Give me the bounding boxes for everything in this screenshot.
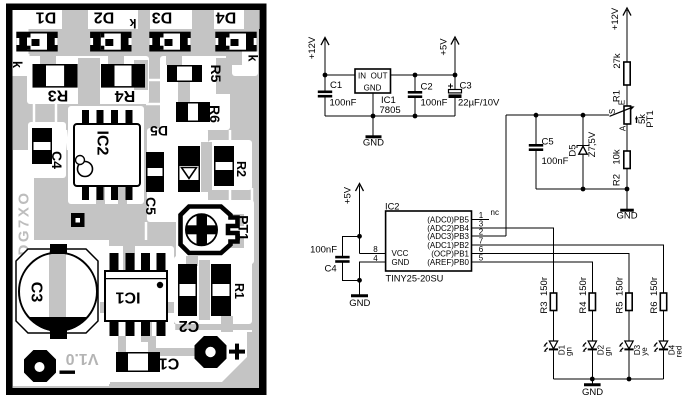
resistor R2: [624, 151, 630, 169]
capacitor C1: [318, 75, 332, 116]
capacitor C5 footprint: [146, 152, 164, 192]
IC2 pin1 marker circles: [76, 156, 93, 177]
svg-text:VCC: VCC: [392, 249, 409, 258]
PCB gray channels: [199, 260, 210, 320]
svg-text:C5: C5: [542, 137, 554, 148]
svg-text:OUT: OUT: [371, 72, 388, 81]
supply +5V (IC2): [343, 184, 364, 254]
wire R4 to D2: [591, 311, 593, 342]
plus mark: [229, 344, 245, 360]
svg-text:+5V: +5V: [439, 38, 450, 56]
IC1 pins: [110, 253, 166, 336]
svg-text:E: E: [618, 100, 627, 105]
IC IC1 body: [105, 271, 167, 321]
wire R1 to PT1: [626, 85, 628, 106]
svg-text:GND: GND: [349, 298, 370, 309]
resistor R1: [624, 62, 630, 85]
wire divider bottom rail: [536, 188, 627, 190]
resistor R6 footprint: [176, 102, 210, 122]
C3 pads: [50, 244, 67, 339]
svg-text:k: k: [129, 16, 136, 30]
zener diode D5: [577, 115, 589, 189]
node C4 bottom: [357, 278, 362, 283]
svg-text:+12V: +12V: [610, 7, 621, 30]
svg-text:(OCP)PB1: (OCP)PB1: [431, 249, 469, 258]
svg-text:R5: R5: [615, 301, 626, 313]
svg-text:150r: 150r: [615, 277, 626, 296]
svg-text:100nF: 100nF: [310, 245, 337, 256]
svg-text:100nF: 100nF: [421, 98, 448, 109]
potentiometer PT1: [610, 106, 639, 124]
wire wiper to pin2: [505, 115, 507, 236]
regulator IC1 box: [355, 69, 391, 93]
wire pin3 to R3 column: [472, 228, 554, 293]
svg-text:C2: C2: [421, 82, 433, 93]
svg-text:150r: 150r: [578, 277, 589, 296]
svg-text:IN: IN: [358, 72, 366, 81]
wire IC1 OUT to +5V rail: [391, 74, 456, 76]
wire pin1 stub (nc): [472, 218, 490, 220]
svg-text:Z7,5V: Z7,5V: [587, 131, 598, 157]
svg-text:k: k: [10, 61, 24, 68]
LED D1: [543, 341, 558, 352]
svg-text:D5: D5: [568, 144, 579, 156]
wire +12V rail to IC1 IN: [325, 74, 355, 76]
svg-text:nc: nc: [491, 208, 499, 217]
svg-text:22µF/10V: 22µF/10V: [458, 98, 500, 109]
resistor R3: [550, 293, 556, 311]
IC U: IC2 body: [74, 124, 140, 186]
resistor R2 footprint: [214, 146, 234, 186]
node rail D2: [590, 377, 595, 382]
wire D1 cathode: [553, 350, 555, 380]
minus mark: [60, 371, 76, 374]
svg-text:7805: 7805: [380, 105, 401, 116]
wire pin5 to R4 column: [472, 262, 593, 293]
wire GND pin4: [360, 262, 386, 294]
node C2 top: [413, 73, 418, 78]
svg-text:IC1: IC1: [115, 289, 140, 306]
LED footprint D1: [16, 32, 57, 52]
node C5 top: [534, 113, 539, 118]
capacitor C3 body circle: [19, 253, 97, 331]
svg-text:R6: R6: [649, 301, 660, 313]
svg-text:C2: C2: [179, 317, 200, 334]
wire pin2 to wiper net: [472, 235, 507, 237]
resistor R5: [626, 293, 632, 311]
svg-text:R3: R3: [48, 87, 69, 104]
node C4 top: [357, 234, 362, 239]
svg-text:R4: R4: [115, 87, 136, 104]
LED D4: [653, 341, 668, 352]
svg-text:R2: R2: [234, 161, 248, 177]
svg-text:IC2: IC2: [94, 131, 111, 156]
wire pin6 to R5 column: [472, 253, 630, 293]
LED footprint D4: [215, 32, 256, 52]
LED footprint D2: [90, 32, 131, 52]
svg-text:8: 8: [373, 245, 378, 254]
svg-text:GND: GND: [364, 84, 382, 93]
wire PT1 to R2: [626, 124, 628, 151]
mounting pad (minus): [24, 350, 56, 382]
ground (LEDs): [582, 379, 603, 398]
PCB board outline frame: [6, 4, 267, 396]
PCB copper traces: [62, 10, 88, 29]
PCB white isolation regions: [13, 10, 260, 29]
diode D5 footprint: [178, 146, 200, 192]
wire R2 bottom: [626, 169, 628, 210]
capacitor C3 outline octagon: [16, 249, 98, 333]
wire IC1 GND pin: [372, 93, 374, 136]
ground (divider): [616, 210, 637, 221]
svg-text:gn: gn: [603, 347, 612, 356]
PCB isolation channels: [33, 104, 36, 122]
via pad: [71, 213, 85, 227]
svg-text:GND: GND: [392, 258, 410, 267]
svg-text:PT1: PT1: [236, 215, 252, 241]
node +12V junction: [323, 73, 328, 78]
svg-text:C3: C3: [460, 81, 472, 92]
supply +12V (divider): [610, 7, 631, 62]
resistor R5 footprint: [167, 65, 202, 82]
node C2 bottom: [413, 114, 418, 119]
svg-text:D4: D4: [216, 9, 237, 26]
svg-text:100nF: 100nF: [330, 98, 357, 109]
capacitor C2: [408, 75, 422, 116]
svg-text:IC2: IC2: [385, 202, 399, 212]
capacitor C3 (polarized): [448, 75, 462, 116]
node rail D3: [627, 377, 632, 382]
svg-text:R3: R3: [539, 301, 550, 313]
node C3 top: [453, 73, 458, 78]
C3 polarity fill: [28, 317, 89, 332]
wire D4 cathode: [663, 350, 665, 380]
MCU IC2 box: [386, 211, 472, 271]
mounting pad (plus): [195, 336, 227, 368]
svg-text:+12V: +12V: [307, 36, 318, 59]
svg-text:DG7XO: DG7XO: [16, 190, 33, 255]
resistor R3 footprint: [33, 64, 78, 88]
svg-text:100nF: 100nF: [542, 156, 569, 167]
svg-text:A: A: [619, 125, 628, 131]
svg-text:ye: ye: [640, 347, 649, 356]
svg-text:150r: 150r: [649, 277, 660, 296]
svg-text:R5: R5: [208, 65, 224, 83]
svg-text:PT1: PT1: [645, 110, 656, 127]
supply +5V (regulator): [439, 37, 460, 75]
svg-text:(AREF)PB0: (AREF)PB0: [427, 258, 469, 267]
wire R5 to D3: [628, 311, 630, 342]
svg-text:D1: D1: [36, 9, 57, 26]
wire R6 to D4: [663, 311, 665, 342]
LED D3: [619, 341, 634, 352]
svg-text:C3: C3: [28, 282, 45, 303]
svg-text:D3: D3: [152, 9, 173, 26]
IC2 pins: [82, 110, 133, 200]
svg-text:6: 6: [479, 245, 484, 254]
wire pin7 to R6 column: [472, 245, 664, 293]
svg-text:GND: GND: [363, 138, 384, 149]
resistor R1 footprint: [211, 264, 231, 316]
wire D2 cathode: [591, 350, 593, 380]
svg-text:R6: R6: [207, 105, 223, 123]
svg-text:C1: C1: [330, 80, 342, 91]
ground (IC1): [363, 137, 384, 149]
svg-text:150r: 150r: [539, 277, 550, 296]
svg-text:GND: GND: [582, 387, 603, 398]
svg-text:10k: 10k: [612, 149, 623, 165]
svg-text:TINY25-20SU: TINY25-20SU: [386, 274, 444, 284]
capacitor C5: [529, 115, 543, 189]
supply +12V (left): [307, 36, 329, 75]
wire D3 cathode: [628, 350, 630, 380]
wire R3 to D1: [553, 311, 555, 342]
svg-text:gn: gn: [565, 347, 574, 356]
svg-text:D5: D5: [150, 123, 168, 139]
capacitor C1 footprint: [116, 352, 160, 372]
svg-text:D2: D2: [94, 9, 115, 26]
node GND stem: [371, 114, 376, 119]
ground (IC2): [349, 296, 370, 309]
svg-text:R4: R4: [578, 301, 589, 313]
resistor R4: [589, 293, 595, 311]
svg-text:C4: C4: [49, 151, 65, 169]
capacitor C2 footprint: [178, 264, 197, 316]
LED footprint D3: [149, 32, 190, 52]
svg-text:S: S: [608, 109, 617, 114]
svg-text:k: k: [246, 55, 260, 62]
resistor R4 footprint: [101, 64, 145, 88]
node D5 top: [581, 113, 586, 118]
svg-text:red: red: [675, 346, 684, 358]
svg-text:C4: C4: [325, 264, 337, 275]
wire bottom rail (7805 section): [325, 115, 455, 117]
capacitor C4: [335, 236, 359, 280]
svg-text:R1: R1: [232, 283, 246, 299]
svg-text:GND: GND: [616, 211, 637, 222]
svg-text:V1.0: V1.0: [65, 350, 98, 367]
svg-text:27k: 27k: [612, 53, 623, 69]
wire wiper net: [506, 114, 609, 116]
wire VCC pin8 stub: [360, 252, 386, 254]
svg-text:C5: C5: [143, 197, 159, 215]
svg-text:C1: C1: [159, 355, 180, 372]
svg-text:R2: R2: [612, 174, 623, 186]
LED D2: [582, 341, 597, 352]
resistor R6: [660, 293, 666, 311]
node D5 bottom: [581, 187, 586, 192]
node R2/GND: [625, 187, 630, 192]
svg-text:4: 4: [373, 254, 378, 263]
capacitor C4 footprint: [32, 128, 52, 164]
svg-text:+5V: +5V: [343, 186, 354, 204]
wire LED bottom rail: [554, 378, 664, 380]
trimmer PT1: [181, 207, 245, 254]
svg-text:5: 5: [479, 254, 484, 263]
